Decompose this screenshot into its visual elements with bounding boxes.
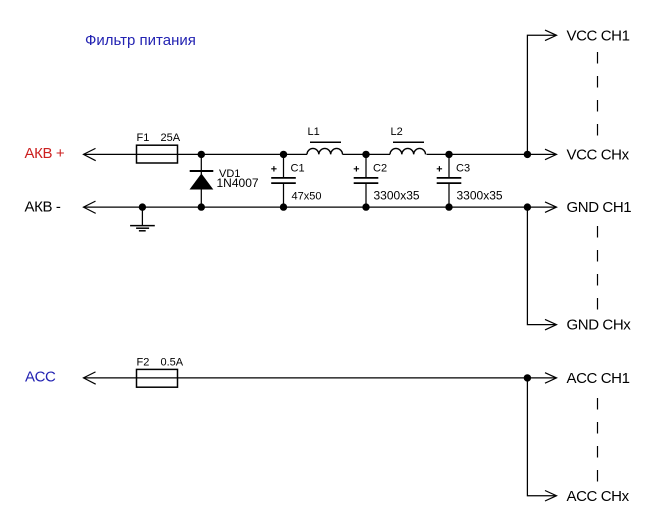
wire ACC main horizontal <box>84 377 528 379</box>
junction C2 top <box>362 151 369 158</box>
diode VD1 <box>190 154 214 207</box>
arrow VCC CHx <box>545 149 557 160</box>
capacitor C3 <box>437 154 462 207</box>
junction ground <box>139 203 146 210</box>
capacitor C1 <box>271 154 296 207</box>
svg-text:C2: C2 <box>373 163 387 175</box>
capacitor C2 <box>354 154 379 207</box>
svg-text:0.5A: 0.5A <box>161 357 184 369</box>
junction C3 bottom <box>445 203 452 210</box>
svg-text:VCC CHx: VCC CHx <box>567 147 630 164</box>
junction VD1 bottom <box>198 203 205 210</box>
svg-text:F1: F1 <box>137 132 150 144</box>
svg-text:47x50: 47x50 <box>292 190 322 202</box>
junction C1 bottom <box>280 203 287 210</box>
arrow left ACC <box>84 372 96 384</box>
svg-text:F2: F2 <box>137 357 150 369</box>
arrow left AKB- <box>84 201 96 213</box>
svg-text:3300x35: 3300x35 <box>457 188 503 202</box>
svg-text:GND CH1: GND CH1 <box>567 199 632 216</box>
svg-text:ACC CH1: ACC CH1 <box>567 370 630 387</box>
junction GND branch <box>524 203 531 210</box>
svg-text:L2: L2 <box>391 126 403 138</box>
arrow GND CH1 <box>545 202 557 213</box>
wire AKB- main horizontal <box>84 206 528 208</box>
wire ACC output branch vertical <box>527 378 556 496</box>
svg-text:ACC: ACC <box>25 369 56 386</box>
svg-text:L1: L1 <box>308 126 320 138</box>
wire GND CH1 stub <box>527 206 556 208</box>
svg-text:GND CHx: GND CHx <box>567 317 632 334</box>
fuse F2 <box>137 369 178 387</box>
wire GND output branch vertical <box>527 207 556 325</box>
junction C2 bottom <box>362 203 369 210</box>
wire AKB+ main horizontal <box>84 153 528 155</box>
svg-text:1N4007: 1N4007 <box>217 176 259 190</box>
arrow VCC CH1 <box>545 30 557 40</box>
svg-text:C3: C3 <box>456 163 470 175</box>
inductor L1 <box>307 142 343 154</box>
wire ACC CH1 stub <box>527 377 556 379</box>
wire VCC output branch vertical <box>527 35 556 154</box>
junction C3 top <box>445 151 452 158</box>
dashed link ACC <box>597 398 599 482</box>
svg-text:АКВ +: АКВ + <box>25 145 65 162</box>
dashed link GND <box>597 226 599 310</box>
junction VCC branch <box>524 151 531 158</box>
inductor L2 <box>390 142 426 154</box>
dashed link VCC <box>597 52 599 136</box>
wire VCC CHx stub <box>527 153 556 155</box>
svg-text:3300x35: 3300x35 <box>374 188 420 202</box>
svg-text:Фильтр питания: Фильтр питания <box>85 32 196 49</box>
svg-text:25A: 25A <box>161 132 181 144</box>
junction VD1 top <box>198 151 205 158</box>
junction ACC branch <box>524 374 531 381</box>
ground <box>130 207 155 231</box>
svg-text:АКВ -: АКВ - <box>25 199 61 216</box>
arrow GND CHx <box>545 319 557 330</box>
svg-text:ACC CHx: ACC CHx <box>567 488 630 505</box>
arrow ACC CH1 <box>545 373 557 384</box>
fuse F1 <box>137 145 178 163</box>
svg-text:C1: C1 <box>291 163 305 175</box>
junction C1 top <box>280 151 287 158</box>
arrow ACC CHx <box>545 491 557 502</box>
svg-text:VCC CH1: VCC CH1 <box>567 27 630 44</box>
arrow left AKB+ <box>84 148 96 160</box>
